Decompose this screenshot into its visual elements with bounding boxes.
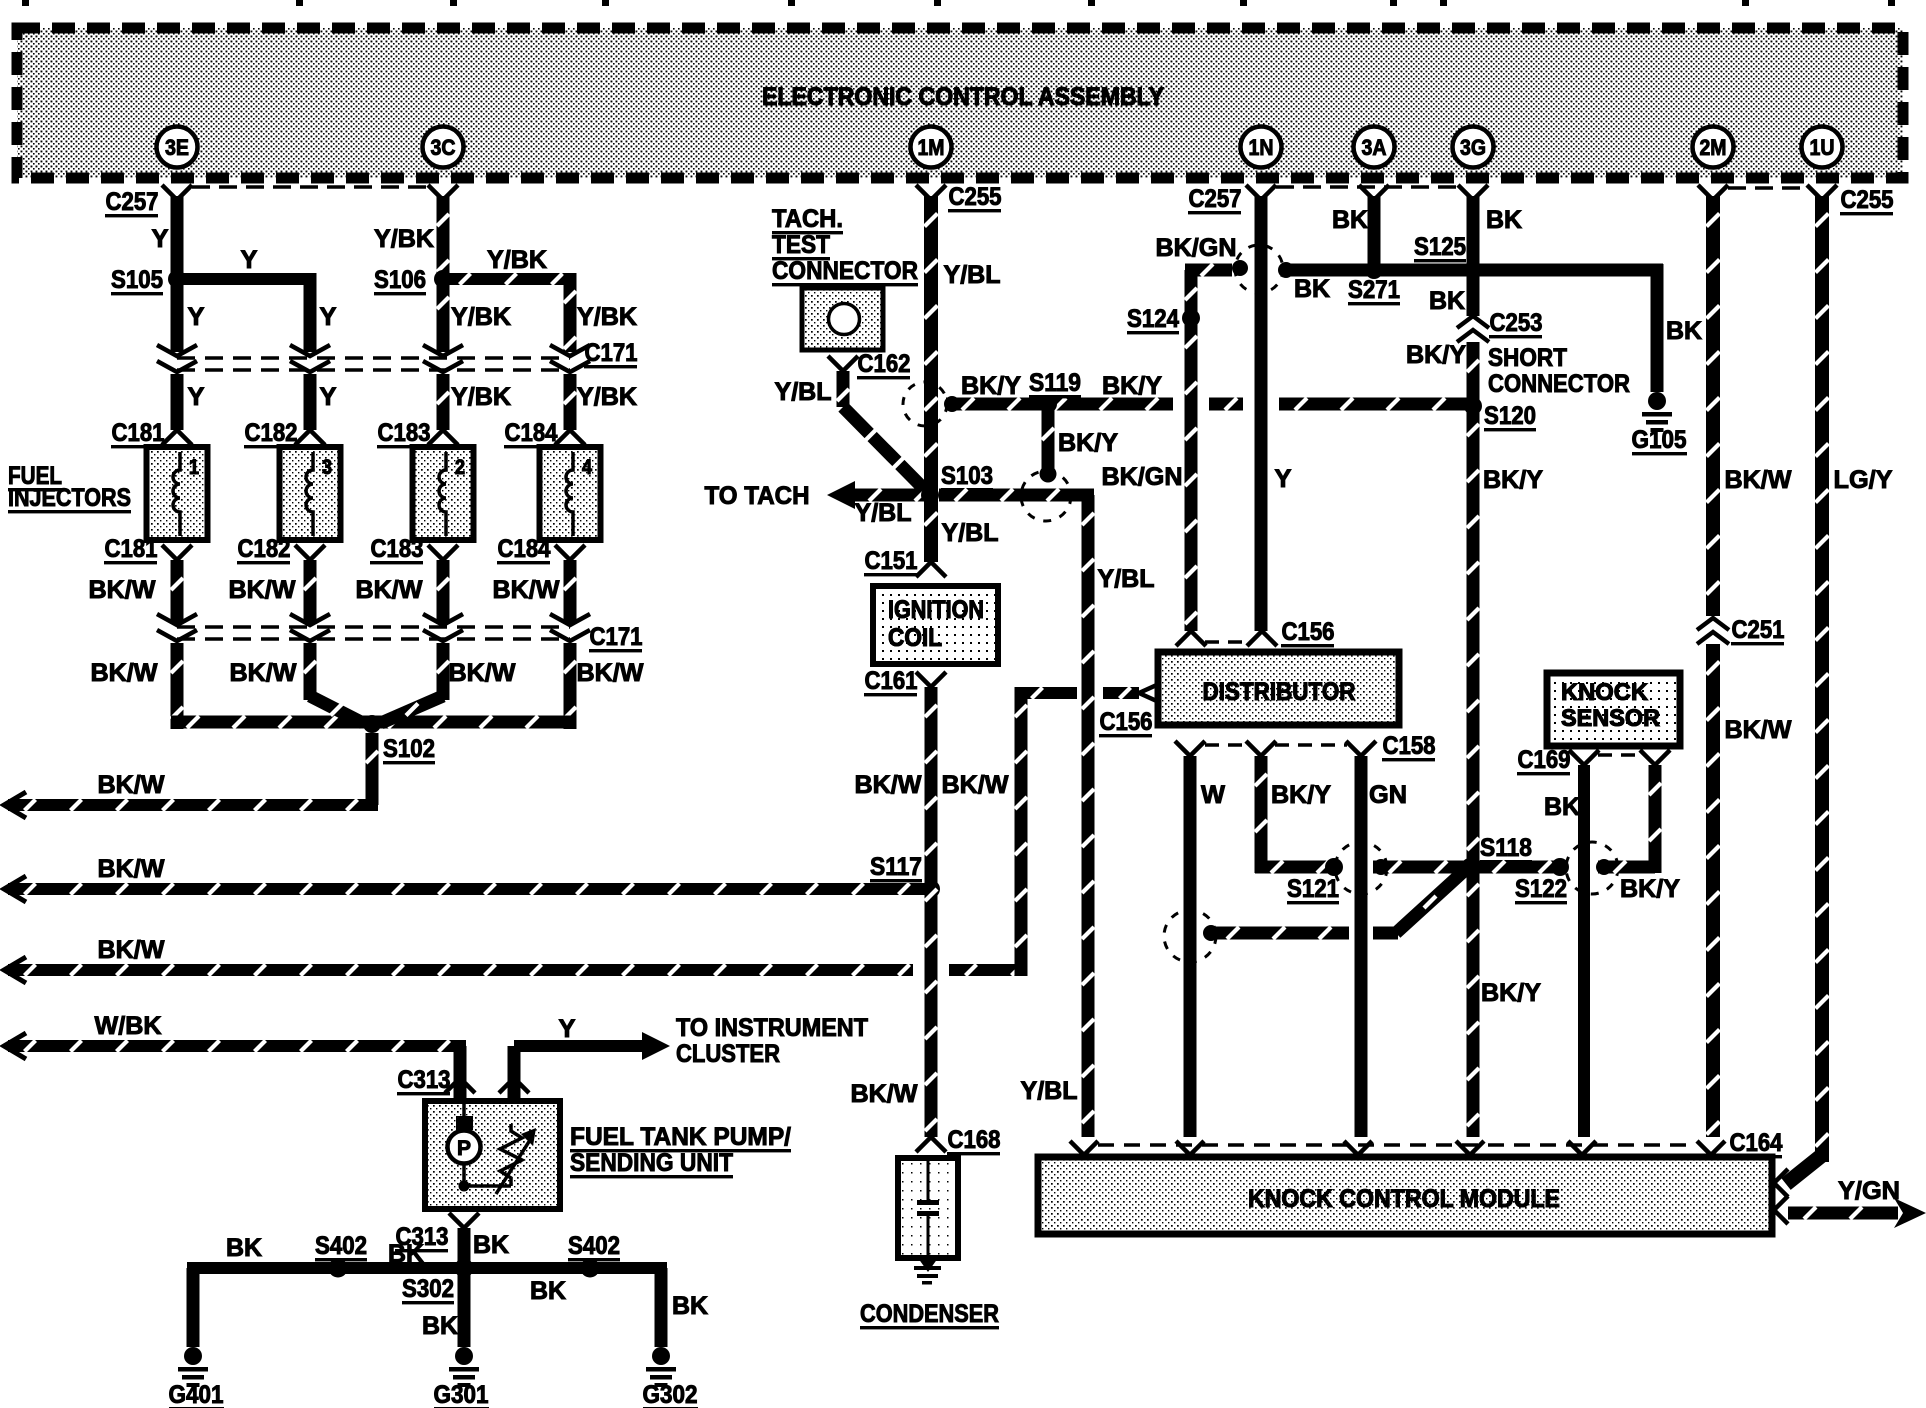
svg-text:ELECTRONIC CONTROL ASSEMBLY: ELECTRONIC CONTROL ASSEMBLY xyxy=(762,83,1164,111)
svg-text:C253: C253 xyxy=(1490,309,1543,337)
label BK/W (2M lower) xyxy=(1725,716,1792,744)
label G401 xyxy=(169,1381,225,1408)
svg-text:TO INSTRUMENT: TO INSTRUMENT xyxy=(676,1014,868,1042)
label C164 xyxy=(1729,1129,1783,1158)
svg-text:Y: Y xyxy=(320,303,337,331)
wire BK/W coil to condenser xyxy=(925,687,938,1137)
svg-text:S271: S271 xyxy=(1348,276,1400,304)
label Y/BK (3C wire) xyxy=(374,225,434,253)
connector C183 bottom label xyxy=(370,535,424,564)
svg-text:BK: BK xyxy=(1429,287,1465,315)
svg-text:G302: G302 xyxy=(643,1381,698,1408)
label S105 xyxy=(111,266,163,295)
connector C253 marks xyxy=(1457,316,1489,342)
label S119 xyxy=(1029,369,1081,398)
label BK/Y below S120 xyxy=(1483,466,1543,494)
wire BK/W merge bottom left xyxy=(171,716,372,729)
label C171 row2 xyxy=(589,623,643,652)
svg-text:C255: C255 xyxy=(949,183,1002,211)
connector C171 mark row2 wire1 xyxy=(157,614,197,641)
label C162 xyxy=(857,350,911,379)
wire BK/W horizontal 1 xyxy=(4,792,378,818)
connector C184 bottom fork xyxy=(555,545,585,560)
teardrop dot right of BK wire xyxy=(1596,859,1612,875)
svg-text:P: P xyxy=(457,1137,471,1160)
svg-text:BK: BK xyxy=(1544,793,1580,821)
svg-text:Y: Y xyxy=(188,303,205,331)
wire Y/BK S106 down to C171 xyxy=(437,279,450,352)
connector C151 fork xyxy=(916,562,946,577)
label BK/Y above S120 xyxy=(1406,341,1466,369)
svg-text:BK/W: BK/W xyxy=(89,576,156,604)
splice S125 xyxy=(1464,261,1482,279)
connector C171 mark row2 wire3 xyxy=(423,614,463,641)
svg-text:S302: S302 xyxy=(402,1275,454,1303)
label BK/Y left of S119 xyxy=(961,372,1021,400)
label BK right segment xyxy=(1666,317,1702,345)
splice S271 xyxy=(1365,261,1383,279)
label Y (3E wire) xyxy=(152,225,169,253)
svg-text:BK/W: BK/W xyxy=(1725,466,1792,494)
splice S103 xyxy=(921,486,939,504)
svg-text:Y/BK: Y/BK xyxy=(374,225,434,253)
ECA pin 3G xyxy=(1453,127,1494,168)
connector C171 mark row1 wire2 xyxy=(290,345,330,372)
label S117 xyxy=(870,853,922,882)
wire BK ground bus xyxy=(187,1262,667,1274)
svg-text:C257: C257 xyxy=(1189,185,1242,213)
svg-text:Y/BK: Y/BK xyxy=(577,383,637,411)
label S103 xyxy=(941,462,993,491)
label BK bus mid xyxy=(388,1240,424,1268)
label C151 xyxy=(864,547,918,576)
svg-text:BK/W: BK/W xyxy=(449,659,516,687)
connector fork under pin 1M xyxy=(916,185,946,200)
svg-text:CLUSTER: CLUSTER xyxy=(676,1040,780,1068)
connector fork LG/Y into module xyxy=(1774,1169,1788,1197)
label BK bus left xyxy=(226,1234,262,1262)
svg-text:TACH.: TACH. xyxy=(772,205,843,233)
label BK/W row1 x262 xyxy=(229,576,296,604)
connector C156 stub fork xyxy=(1139,678,1172,708)
svg-text:1: 1 xyxy=(189,456,199,479)
fuel injector 2 box xyxy=(413,447,474,540)
svg-text:BK: BK xyxy=(530,1277,566,1305)
wire BK 3A stub xyxy=(1368,196,1381,270)
svg-text:GN: GN xyxy=(1369,781,1407,809)
svg-text:Y: Y xyxy=(241,246,258,274)
ECA pin 3C xyxy=(423,127,464,168)
connector C184 top label xyxy=(504,419,558,448)
wire BK/W below C182 xyxy=(304,560,317,624)
ECA pin 2M xyxy=(1693,127,1734,168)
svg-text:BK/Y: BK/Y xyxy=(1483,466,1543,494)
svg-text:Y: Y xyxy=(152,225,169,253)
label BK/W row1 x389 xyxy=(356,576,423,604)
splice S402 left xyxy=(329,1259,348,1278)
connector C164 fork BK xyxy=(1568,1141,1596,1155)
svg-text:BK/Y: BK/Y xyxy=(1271,781,1331,809)
junction S302 xyxy=(455,1259,474,1278)
label Y (1N wire) xyxy=(1275,465,1292,493)
label SHORT CONNECTOR xyxy=(1488,344,1630,398)
teardrop dot left of S119 row xyxy=(944,396,960,412)
svg-text:2M: 2M xyxy=(1700,135,1727,160)
connector C164 fork BK/W xyxy=(1697,1141,1725,1155)
svg-text:BK/W: BK/W xyxy=(230,659,297,687)
label W/BK horizontal4 xyxy=(95,1012,162,1040)
electronic control assembly box xyxy=(17,28,1903,178)
ground G301 xyxy=(449,1347,479,1387)
label BK/Y (distributor) xyxy=(1271,781,1331,809)
svg-text:Y/BK: Y/BK xyxy=(451,383,511,411)
svg-text:SENSOR: SENSOR xyxy=(1561,705,1660,732)
wire BK/Y distributor to S121 xyxy=(1255,756,1335,874)
connector C162 fork xyxy=(828,356,858,371)
wire Y branch S105 to injector3 drop xyxy=(177,273,317,352)
connector C183 bottom fork xyxy=(428,545,458,560)
svg-text:BK: BK xyxy=(388,1240,424,1268)
wire Y/GN exit xyxy=(1774,1196,1926,1228)
svg-text:C171: C171 xyxy=(590,623,643,651)
svg-text:S119: S119 xyxy=(1029,369,1081,397)
svg-text:KNOCK: KNOCK xyxy=(1561,679,1649,706)
svg-text:S125: S125 xyxy=(1414,233,1466,261)
label BK/W row2 x124 xyxy=(91,659,158,687)
splice S102 xyxy=(363,715,381,733)
svg-text:BK/W: BK/W xyxy=(942,771,1009,799)
svg-text:LG/Y: LG/Y xyxy=(1834,466,1893,494)
teardrop dot below S119 xyxy=(1040,466,1057,483)
label C251 xyxy=(1731,616,1785,645)
svg-text:1M: 1M xyxy=(918,135,945,160)
wire BK/W 2M to C251 xyxy=(1706,196,1720,616)
wire W distributor to module xyxy=(1184,756,1197,1137)
label C253 xyxy=(1489,309,1543,338)
svg-text:4: 4 xyxy=(582,456,592,479)
label Y/BK (branch top) xyxy=(487,246,547,274)
label BK/Y right of S122 xyxy=(1620,875,1680,903)
wire BK/W C171 injector3 to merge xyxy=(304,643,317,700)
svg-text:Y/BL: Y/BL xyxy=(855,499,912,527)
fuel tank pump sending unit box xyxy=(425,1101,560,1209)
splice S402 right xyxy=(581,1259,600,1278)
wire BK bus S271-S125-G105 xyxy=(1286,264,1664,393)
svg-text:BK/W: BK/W xyxy=(98,936,165,964)
label S121 xyxy=(1287,875,1339,904)
label BK/W horizontal2 xyxy=(98,855,165,883)
connector C181 top fork xyxy=(162,430,192,445)
svg-text:BK/Y: BK/Y xyxy=(1406,341,1466,369)
wire Y/BK branch S106 to injector4 drop xyxy=(443,273,577,352)
connector C181 top label xyxy=(111,419,165,448)
wire BK/W riser to C156 stub xyxy=(1015,687,1140,976)
label BK/W above C168 xyxy=(851,1080,918,1108)
connector C184 bottom label xyxy=(497,535,551,564)
wire Y to instrument cluster xyxy=(508,1032,671,1078)
fuel injector 3 box xyxy=(280,447,341,540)
connector fork under pin 3G xyxy=(1458,185,1488,200)
ECA pin 3A xyxy=(1354,127,1395,168)
connector C182 top fork xyxy=(295,430,325,445)
label GN xyxy=(1369,781,1407,809)
wire Y/BK C171 to C183 xyxy=(437,374,450,430)
svg-text:BK/W: BK/W xyxy=(91,659,158,687)
page edge tick marks xyxy=(22,0,1895,6)
svg-text:TO TACH: TO TACH xyxy=(705,482,810,510)
connector fork under pin 3C xyxy=(428,185,458,200)
wire Y C171 to C182 xyxy=(304,374,317,430)
svg-text:C158: C158 xyxy=(1383,732,1436,760)
svg-text:Y/BK: Y/BK xyxy=(487,246,547,274)
connector C171 mark row1 wire4 xyxy=(550,345,590,372)
svg-text:G301: G301 xyxy=(434,1381,489,1408)
svg-text:BK: BK xyxy=(422,1312,458,1340)
label S402 left xyxy=(315,1232,367,1261)
svg-text:BK/W: BK/W xyxy=(98,771,165,799)
label S102 xyxy=(383,735,435,764)
svg-text:BK/Y: BK/Y xyxy=(1058,429,1118,457)
label C171 row1 xyxy=(584,339,638,368)
svg-text:BK/Y: BK/Y xyxy=(1620,875,1680,903)
ECA pin 1M xyxy=(911,127,952,168)
label BK/GN upper xyxy=(1156,234,1237,262)
label LG/Y xyxy=(1834,466,1893,494)
connector C171 mark row1 wire1 xyxy=(157,345,197,372)
distributor box xyxy=(1158,652,1399,725)
label Y/BK (above C183) xyxy=(451,383,511,411)
svg-text:C169: C169 xyxy=(1518,746,1571,774)
svg-text:Y/BL: Y/BL xyxy=(775,378,832,406)
fuel injector 1 box xyxy=(147,447,208,540)
svg-text:BK/Y: BK/Y xyxy=(1102,372,1162,400)
label BK (3G) xyxy=(1486,206,1522,234)
wire Y/BL to-tach arrow xyxy=(827,481,930,509)
svg-text:W/BK: W/BK xyxy=(95,1012,162,1040)
label TO TACH xyxy=(705,482,810,510)
wire BK/W C171 to corner left xyxy=(171,643,184,729)
svg-text:C156: C156 xyxy=(1100,708,1153,736)
svg-text:C156: C156 xyxy=(1282,618,1335,646)
connector C169 forks xyxy=(1569,750,1670,765)
label Y/BK (above C184) xyxy=(577,383,637,411)
wire BK/W C251 to module xyxy=(1706,644,1720,1137)
wire Y/BK from 3C to S106 xyxy=(437,196,450,279)
tach test connector box xyxy=(802,288,883,350)
svg-text:C182: C182 xyxy=(245,419,298,447)
ECA pin 3E xyxy=(157,127,198,168)
svg-text:INJECTORS: INJECTORS xyxy=(8,484,131,512)
svg-text:BK: BK xyxy=(473,1231,509,1259)
label C156 stub xyxy=(1099,708,1153,737)
svg-text:BK/W: BK/W xyxy=(577,659,644,687)
svg-text:C257: C257 xyxy=(106,188,159,216)
svg-text:Y: Y xyxy=(320,383,337,411)
svg-text:FUEL TANK PUMP/: FUEL TANK PUMP/ xyxy=(570,1123,791,1151)
svg-text:S106: S106 xyxy=(374,266,426,294)
svg-text:IGNITION: IGNITION xyxy=(888,596,984,624)
svg-text:C251: C251 xyxy=(1732,616,1785,644)
label Y (second wire) xyxy=(320,303,337,331)
label BK right of pump wire xyxy=(473,1231,509,1259)
wire BK/Y S118 to S122 xyxy=(1477,861,1560,874)
wire BK left drop to G401 xyxy=(187,1268,200,1347)
svg-text:G105: G105 xyxy=(1632,426,1687,454)
connector C181 bottom label xyxy=(104,535,158,564)
label BK/Y above module xyxy=(1481,979,1541,1007)
svg-text:BK: BK xyxy=(1332,206,1368,234)
svg-text:Y/BL: Y/BL xyxy=(1098,565,1155,593)
svg-text:S124: S124 xyxy=(1127,305,1179,333)
label Y/BK (fourth wire) xyxy=(577,303,637,331)
label S125 xyxy=(1414,233,1466,262)
knock sensor box xyxy=(1547,673,1680,746)
splice S105 xyxy=(168,270,186,288)
connector C158 forks xyxy=(1175,741,1376,756)
connector C313 upper forks xyxy=(445,1078,529,1101)
svg-text:C161: C161 xyxy=(865,667,918,695)
svg-text:3C: 3C xyxy=(431,135,456,160)
label BK center vertical xyxy=(422,1312,458,1340)
svg-text:BK/W: BK/W xyxy=(493,576,560,604)
wire BK/W horizontal 3 xyxy=(4,957,1027,983)
splice S118 xyxy=(1461,858,1479,876)
label S106 xyxy=(374,266,426,295)
splice S106 xyxy=(434,270,452,288)
ignition coil box xyxy=(873,586,998,664)
svg-text:S105: S105 xyxy=(111,266,163,294)
label C158 xyxy=(1382,732,1436,761)
label BK/Y right of S119 xyxy=(1102,372,1162,400)
wire BK/W merge bottom right xyxy=(372,716,576,729)
connector C182 bottom fork xyxy=(295,545,325,560)
teardrop dot right of GN xyxy=(1373,859,1389,875)
wire BK/Y S121 to S118 xyxy=(1373,861,1466,874)
ground G401 xyxy=(178,1347,208,1387)
ECA pin 1U xyxy=(1802,127,1843,168)
connector fork under pin 3E xyxy=(162,185,192,200)
connector C182 top label xyxy=(244,419,298,448)
svg-text:C151: C151 xyxy=(865,547,918,575)
svg-text:C183: C183 xyxy=(371,535,424,563)
label C169 xyxy=(1517,746,1571,775)
label BK/W (2M upper) xyxy=(1725,466,1792,494)
svg-text:2: 2 xyxy=(455,456,465,479)
label Y/BL (right drop) xyxy=(1098,565,1155,593)
label BK/W left of coil wire xyxy=(855,771,922,799)
svg-text:C162: C162 xyxy=(858,350,911,378)
connector C181 bottom fork xyxy=(162,545,192,560)
dashed circle at 1N crossing xyxy=(1235,245,1283,293)
label S302 xyxy=(402,1275,454,1304)
svg-text:C313: C313 xyxy=(398,1066,451,1094)
svg-text:S402: S402 xyxy=(568,1232,620,1260)
svg-text:BK/W: BK/W xyxy=(1725,716,1792,744)
svg-text:BK/W: BK/W xyxy=(229,576,296,604)
label Y/BL (1M wire) xyxy=(944,261,1001,289)
svg-text:SHORT: SHORT xyxy=(1488,344,1567,372)
svg-text:BK: BK xyxy=(1294,275,1330,303)
wire W/BK horizontal 4 xyxy=(4,1033,466,1059)
svg-text:G401: G401 xyxy=(169,1381,224,1408)
svg-text:C255: C255 xyxy=(1841,186,1894,214)
wire BK knock sensor to module xyxy=(1578,765,1590,1137)
dashed circle at S121 xyxy=(1335,842,1387,894)
svg-text:Y: Y xyxy=(1275,465,1292,493)
svg-text:C182: C182 xyxy=(238,535,291,563)
connector C313 lower label xyxy=(395,1223,449,1252)
wire Y/BL S103 down to C151 xyxy=(924,495,938,562)
svg-text:CONNECTOR: CONNECTOR xyxy=(772,257,918,285)
label C257 left xyxy=(105,188,159,217)
label C156 xyxy=(1281,618,1335,647)
label C257 at 1N xyxy=(1188,185,1242,214)
wire LG/Y 1U down xyxy=(1815,196,1829,1162)
wire BK/GN S124 to C156 xyxy=(1185,318,1198,631)
wire BK center drop to G301 xyxy=(458,1268,471,1347)
label BK/GN lower xyxy=(1102,463,1183,491)
svg-text:C184: C184 xyxy=(505,419,558,447)
label Y/BL (tach wire) xyxy=(775,378,832,406)
svg-text:C164: C164 xyxy=(1730,1129,1783,1157)
svg-text:BK/W: BK/W xyxy=(98,855,165,883)
connector C171 mark row1 wire3 xyxy=(423,345,463,372)
wire BK/W C171 injector2 to merge xyxy=(437,643,450,700)
label BK/Y (S119 stub) xyxy=(1058,429,1118,457)
ECA pin 1N xyxy=(1241,127,1282,168)
connector fork under pin 1U xyxy=(1807,185,1837,200)
wire BK 3G stub xyxy=(1467,196,1480,270)
connector C183 top label xyxy=(377,419,431,448)
wire Y S105 down to C171 xyxy=(171,279,184,352)
splice S121 xyxy=(1325,858,1343,876)
svg-text:BK: BK xyxy=(672,1292,708,1320)
svg-text:3G: 3G xyxy=(1460,135,1486,160)
svg-text:BK: BK xyxy=(226,1234,262,1262)
label Y/BL above module xyxy=(1021,1077,1078,1105)
label BK/W row2 x482 xyxy=(449,659,516,687)
splice S117 xyxy=(922,880,940,898)
ground G105 xyxy=(1642,392,1672,432)
wire Y/BL 1M down to S103 xyxy=(924,196,938,495)
svg-text:3A: 3A xyxy=(1362,135,1387,160)
wire Y/BK C171 to C184 xyxy=(564,374,577,430)
svg-text:TEST: TEST xyxy=(772,231,830,259)
label Y (branch top) xyxy=(241,246,258,274)
label BK (knock sensor) xyxy=(1544,793,1580,821)
svg-text:BK/GN: BK/GN xyxy=(1102,463,1183,491)
dashed circle on 1M wire at S119 row xyxy=(903,382,947,426)
svg-text:1N: 1N xyxy=(1249,135,1274,160)
svg-text:Y/BL: Y/BL xyxy=(944,261,1001,289)
svg-text:C181: C181 xyxy=(105,535,158,563)
splice S119 xyxy=(1039,395,1057,413)
connector C257 dashed bus (1N-3G) xyxy=(1276,185,1458,189)
wire BK/W horizontal 2 to S117 xyxy=(4,876,931,902)
label BK bus right-low xyxy=(530,1277,566,1305)
wire BK/W S102 down xyxy=(366,733,379,805)
label Y/GN xyxy=(1838,1177,1900,1205)
wire Y C171 to C181 xyxy=(171,374,184,430)
connector C171 dashed lines row2 xyxy=(177,627,570,639)
teardrop dot on W wire xyxy=(1203,925,1219,941)
svg-text:Y/BK: Y/BK xyxy=(577,303,637,331)
connector C313 lower fork xyxy=(449,1213,479,1228)
splice S122 xyxy=(1551,858,1569,876)
label BK/W row1 x122 xyxy=(89,576,156,604)
label C255 at 1U xyxy=(1840,186,1894,215)
svg-text:BK/W: BK/W xyxy=(855,771,922,799)
